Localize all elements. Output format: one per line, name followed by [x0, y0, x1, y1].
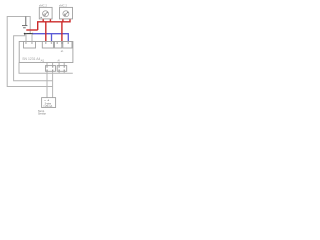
- terminal T4: [63, 42, 72, 49]
- svg-text:AI: AI: [58, 60, 61, 63]
- pump P1 box: [39, 7, 52, 19]
- wire W2 from junction at black segment, left and down to lower-left, then right: [14, 34, 53, 81]
- bottom terminal pair B2: [57, 66, 66, 72]
- ground (earth) symbol hanging from top rail: [25, 17, 27, 26]
- black wire segment between junction dots: [25, 33, 33, 35]
- red wire horizontal near ground: [26, 29, 37, 31]
- wire: stubs big box bottom to second bottom terminal pair and pins down: [59, 63, 64, 74]
- wire: long vertical from bottom terminal pair right pin to sensor box: [52, 71, 54, 97]
- node junction dot left: [24, 33, 26, 35]
- terminal T2: [42, 42, 53, 49]
- terminal T1 pins up: [26, 34, 32, 42]
- wire: long vertical from bottom terminal pair left pin to sensor box: [46, 71, 48, 97]
- terminal T4 pin marks: [61, 42, 62, 43]
- svg-text:SN 1231 A4: SN 1231 A4: [22, 57, 40, 61]
- red pin pump1 right: [49, 19, 51, 22]
- terminal T3 pin mark: [57, 42, 58, 43]
- bottom terminal pair B1: [46, 66, 56, 72]
- red pin pump1 left: [42, 19, 44, 22]
- red wire bus under top boxes: [38, 19, 70, 30]
- wire W3 stub from big box bottom-left down then right under bottom terminals: [19, 63, 73, 74]
- wire W1 top-left gray loop: top rail then down left side to bottom box: [7, 17, 52, 87]
- red drop to terminal T3: [61, 22, 63, 42]
- pump P1 circle symbol: [43, 11, 49, 17]
- pump P1 pin label: [40, 17, 42, 18]
- node junction dot right: [32, 33, 34, 35]
- red pin pump2 left: [62, 19, 64, 22]
- wire: stubs big box bottom to first bottom terminal pair: [47, 63, 53, 66]
- terminal T1 pin marks: [25, 42, 26, 43]
- svg-text:= 25 mA: = 25 mA: [43, 105, 52, 108]
- pump P2 box: [60, 7, 73, 19]
- terminal T1: [24, 42, 36, 49]
- svg-text:AQ: AQ: [41, 60, 45, 63]
- blue wire: horizontal bus to T4 right pin, with stub to T2 left pin: [33, 34, 69, 42]
- red drop to terminal T2: [45, 22, 47, 42]
- sensor box: [42, 98, 56, 108]
- pump P2 circle symbol: [63, 11, 69, 17]
- svg-text:Sensor: Sensor: [38, 113, 46, 116]
- svg-text:xMC 2: xMC 2: [39, 4, 48, 8]
- terminal T2 pin marks: [45, 42, 46, 43]
- svg-text:xMC 2: xMC 2: [59, 4, 68, 8]
- controller U1 big box: [19, 42, 73, 63]
- terminal T3: [55, 42, 62, 49]
